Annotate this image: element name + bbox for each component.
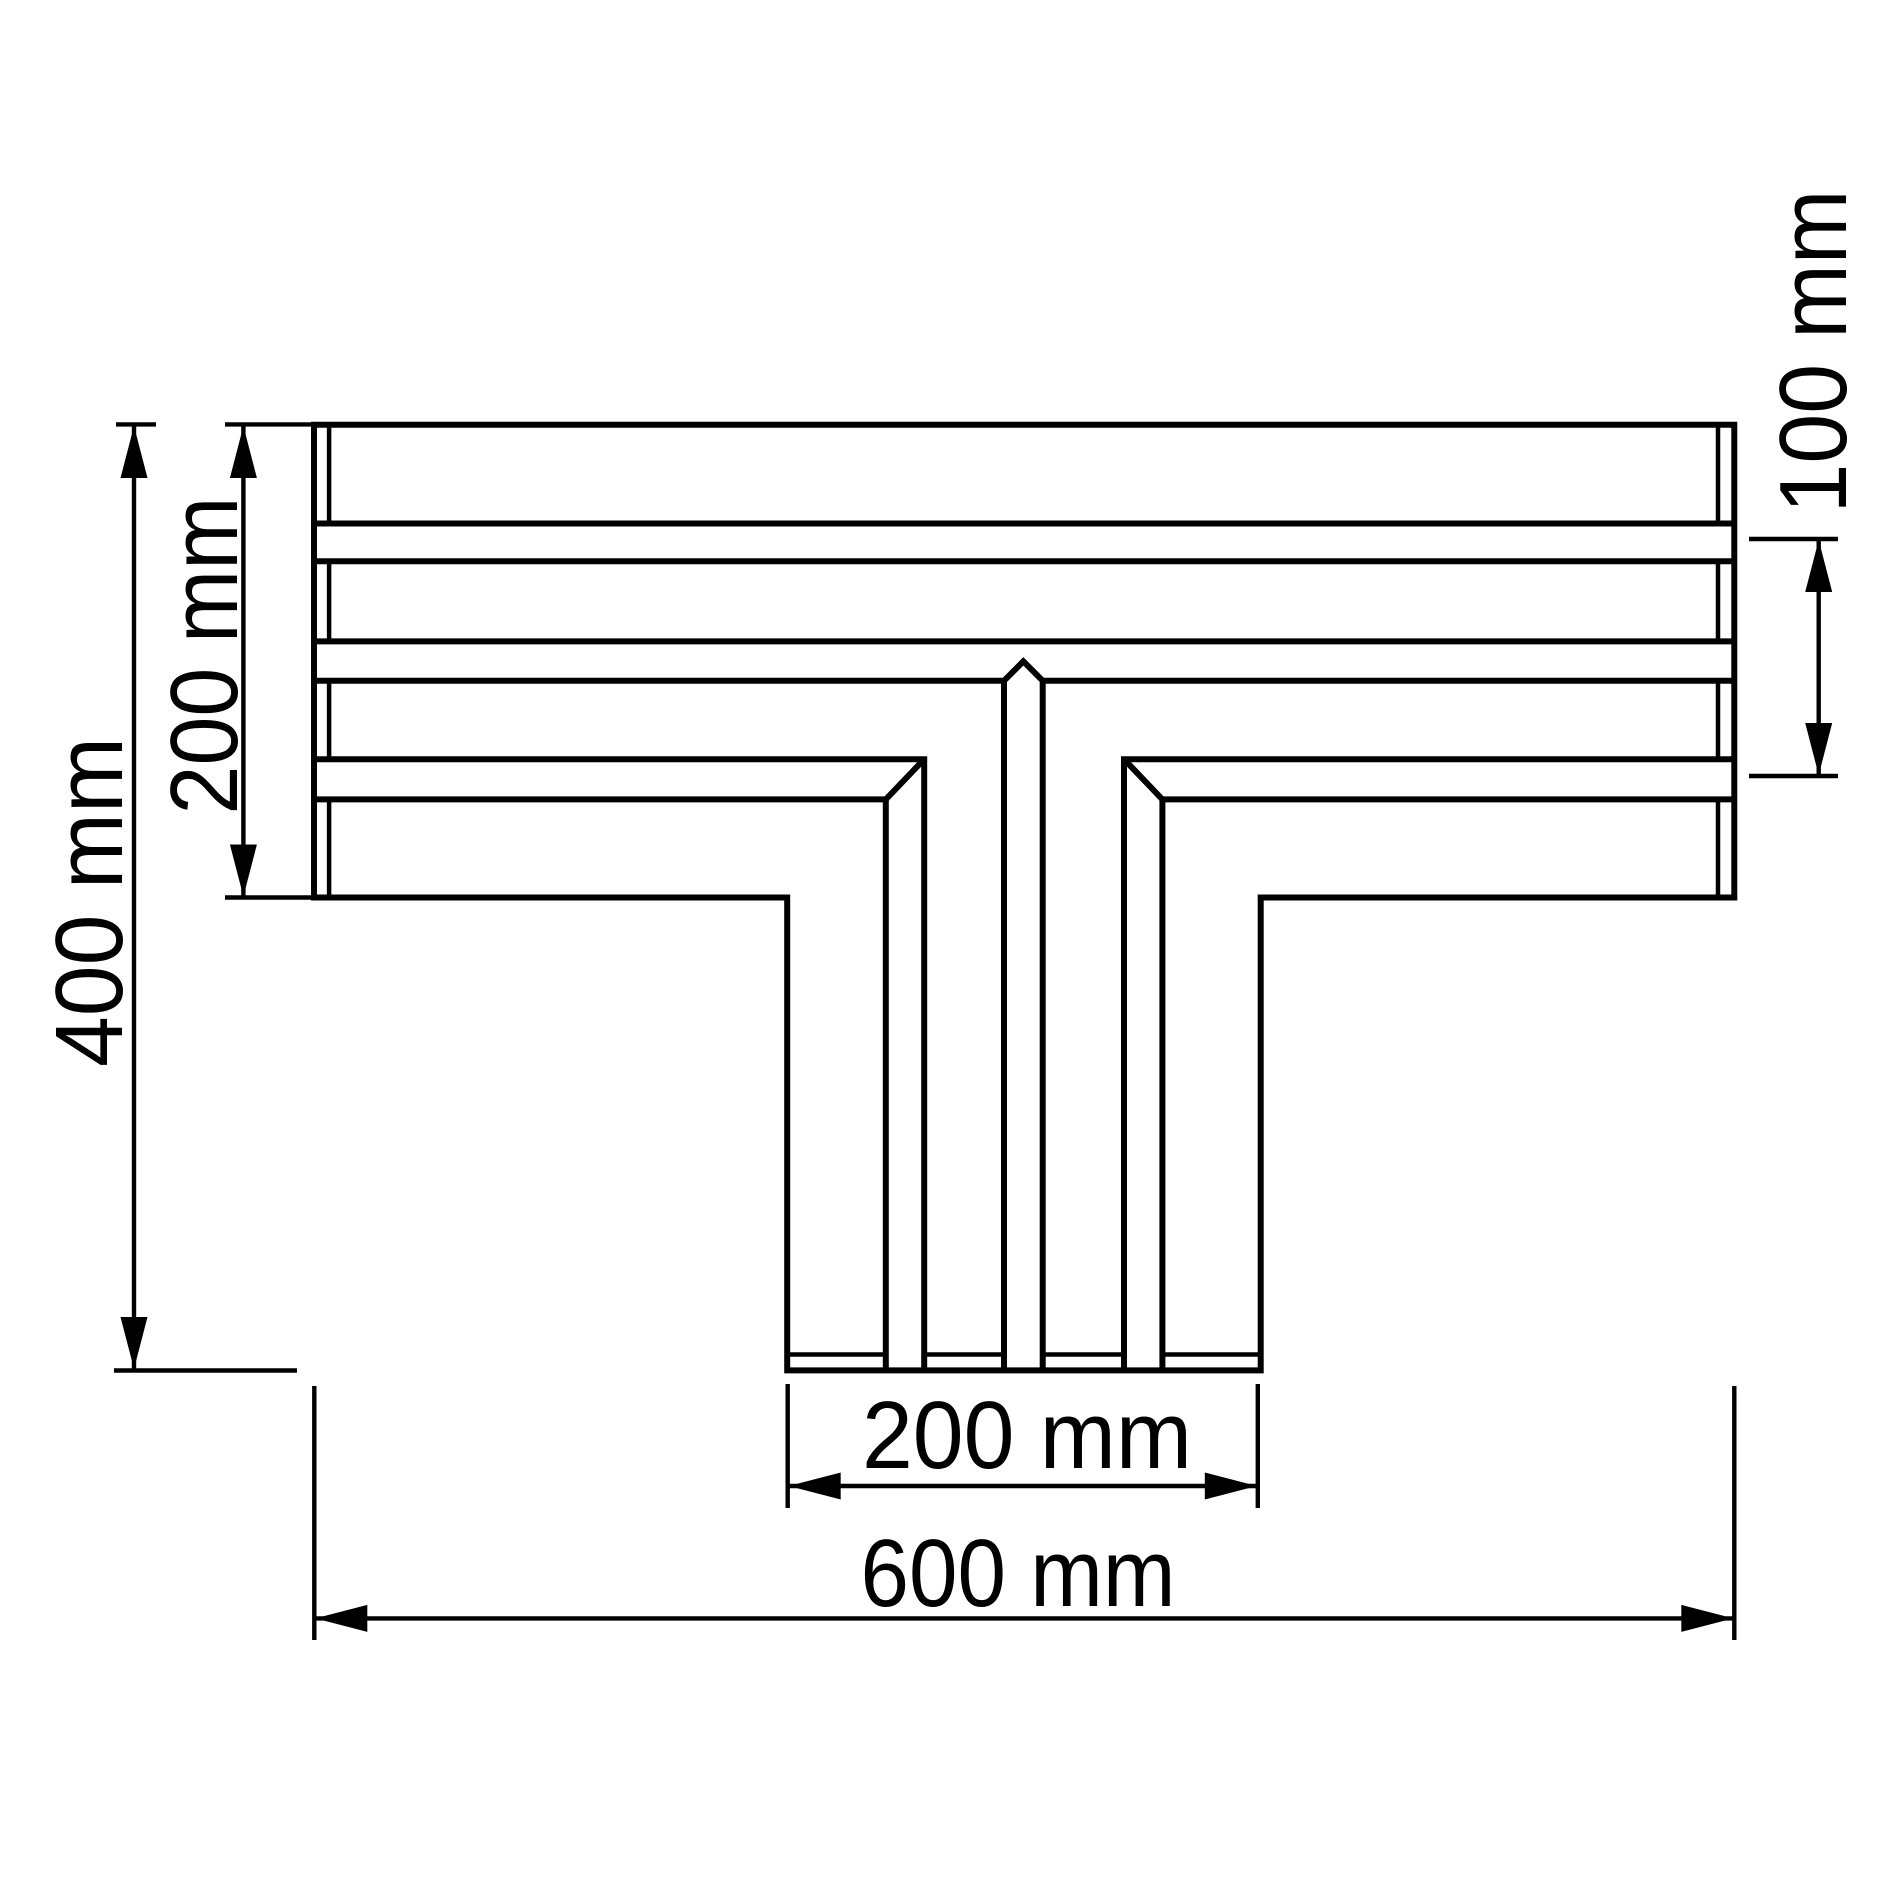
divider 3 top line L6 left + leg wall — [314, 759, 924, 1370]
extension tick top of 400mm dim — [116, 422, 156, 426]
dimension line 200mm left — [241, 425, 245, 898]
right end wall inner edge — [1716, 426, 1721, 896]
svg-text:400 mm: 400 mm — [36, 737, 143, 1067]
extension line leg right — [1256, 1384, 1260, 1508]
tee outer outline — [314, 425, 1734, 1371]
extension tick bottom of 100mm dim — [1749, 774, 1838, 778]
dimension line 100mm right — [1816, 539, 1820, 776]
arrowhead 200mm-bottom right — [1205, 1473, 1257, 1500]
arrowhead 600mm left — [315, 1605, 367, 1632]
dimension line 200mm bottom — [788, 1484, 1258, 1488]
svg-text:600 mm: 600 mm — [861, 1520, 1176, 1627]
divider 1 top line L2 — [314, 521, 1734, 527]
extension tick top of 100mm dim — [1749, 537, 1838, 541]
left end wall inner edge — [327, 426, 332, 896]
arrowhead 100mm up — [1805, 540, 1832, 592]
arrowhead 600mm right — [1681, 1605, 1733, 1632]
svg-text:200 mm: 200 mm — [151, 497, 258, 815]
arrowhead 400mm down — [121, 1317, 148, 1369]
divider 2 bottom line L5 left — [314, 678, 1004, 684]
extension line bar right — [1732, 1386, 1736, 1640]
extension tick bottom of 400mm dim — [114, 1368, 297, 1372]
extension line bar left — [312, 1386, 316, 1640]
divider 3 bottom line L7 right + leg wall — [1162, 799, 1734, 1370]
divider 2 top line L4 — [314, 638, 1734, 644]
dimension line 400mm — [132, 425, 136, 1371]
center divider peak and leg walls — [1004, 661, 1043, 1370]
arrowhead 100mm down — [1805, 723, 1832, 775]
arrowhead 200mm-bottom left — [789, 1473, 841, 1500]
svg-text:100 mm: 100 mm — [1760, 190, 1867, 514]
arrowhead 200mm-left up — [230, 426, 257, 478]
arrowhead 400mm up — [121, 426, 148, 478]
divider 3 bottom line L7 left + leg wall — [314, 799, 886, 1370]
miter seam right — [1124, 759, 1162, 799]
bottom end wall inner edge — [789, 1352, 1260, 1357]
extension line leg left — [786, 1384, 790, 1508]
extension tick bottom of 200mm dim — [225, 895, 317, 899]
miter seam left — [886, 759, 924, 799]
extension tick top of 200mm dim — [225, 422, 317, 426]
divider 2 bottom line L5 right — [1043, 678, 1735, 684]
arrowhead 200mm-left down — [230, 845, 257, 897]
divider 1 bottom line L3 — [314, 558, 1734, 564]
dimension line 600mm — [314, 1616, 1734, 1620]
svg-text:200 mm: 200 mm — [862, 1382, 1192, 1489]
divider 3 top line L6 right + leg wall — [1124, 759, 1734, 1370]
